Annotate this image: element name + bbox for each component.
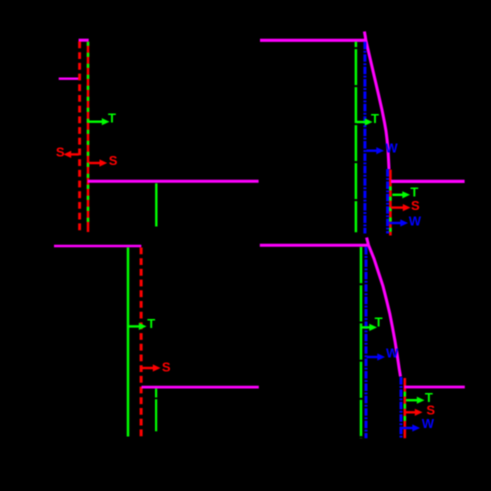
svg-text:S: S <box>411 198 420 213</box>
svg-text:W: W <box>386 346 399 361</box>
svg-text:S: S <box>56 144 65 159</box>
svg-text:W: W <box>422 416 435 431</box>
svg-text:T: T <box>147 316 155 331</box>
svg-text:W: W <box>385 140 398 155</box>
svg-text:S: S <box>162 359 171 374</box>
svg-text:W: W <box>409 213 422 228</box>
svg-text:T: T <box>371 111 379 126</box>
svg-text:T: T <box>375 315 383 330</box>
svg-text:T: T <box>108 110 116 125</box>
svg-text:S: S <box>109 153 118 168</box>
